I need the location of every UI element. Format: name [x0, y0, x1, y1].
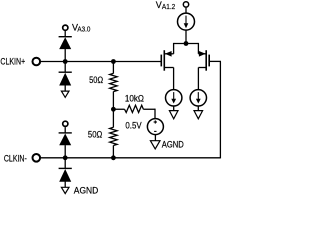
svg-text:50Ω: 50Ω [88, 129, 103, 139]
svg-text:AGND: AGND [74, 185, 99, 195]
svg-text:CLKIN+: CLKIN+ [0, 56, 25, 66]
svg-text:A1.2: A1.2 [162, 2, 175, 11]
svg-text:AGND: AGND [162, 140, 184, 150]
svg-text:0.5V: 0.5V [125, 120, 141, 130]
svg-text:A3.0: A3.0 [77, 25, 90, 34]
svg-text:50Ω: 50Ω [89, 75, 103, 85]
svg-text:CLKIN-: CLKIN- [4, 154, 27, 164]
svg-text:10kΩ: 10kΩ [125, 94, 144, 104]
